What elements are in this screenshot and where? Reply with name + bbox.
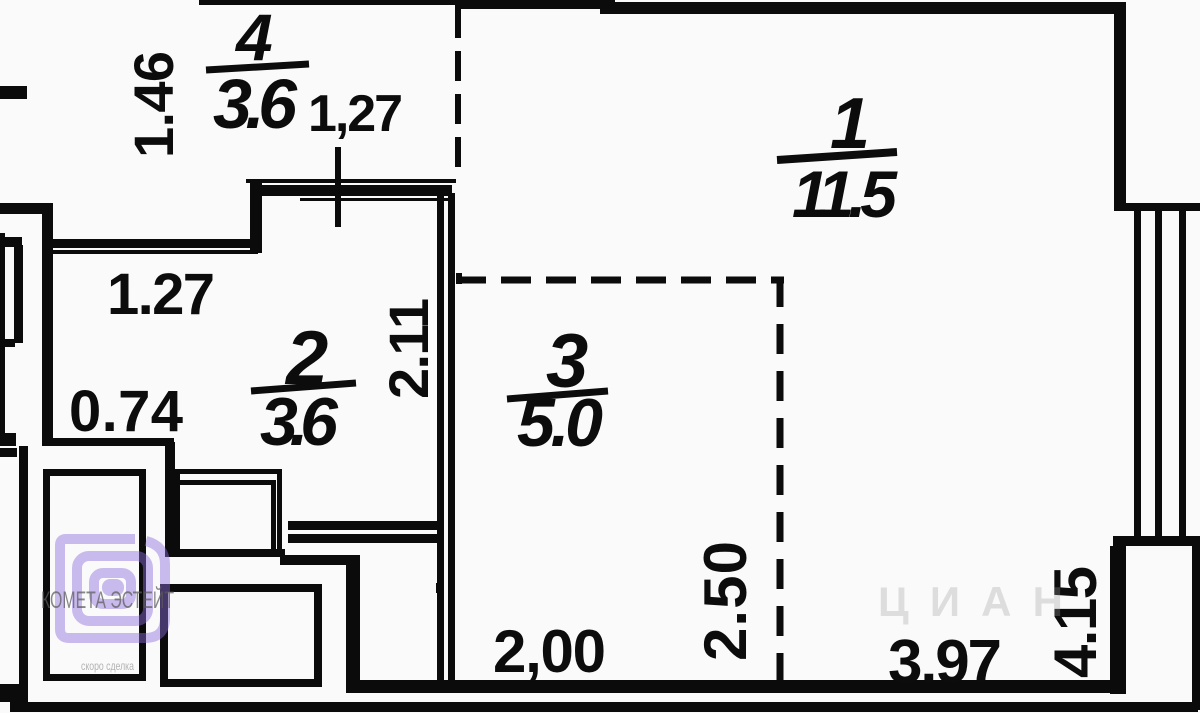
sink inner right line [271,480,276,550]
tick 1.27 dimension [335,147,341,227]
wall room2 south line b [288,534,437,543]
wall bottom-left corner [0,684,28,702]
closet wall top [0,237,22,247]
svg-text:0.74: 0.74 [69,379,183,444]
svg-text:3.6: 3.6 [260,384,339,460]
svg-text:4: 4 [234,0,273,74]
wall step vertical [250,183,262,253]
wall 0.74 horizontal [42,438,174,446]
svg-text:2,00: 2,00 [493,618,606,685]
tick left b [0,448,17,457]
svg-text:3.97: 3.97 [888,628,1002,697]
wall room2 north [255,185,452,196]
wall room1 east vertical [1114,2,1126,211]
dashed room3 east [777,277,784,688]
dashed room3 north [456,277,784,284]
wall apartment south [346,680,1117,693]
wall left top horizontal [0,203,53,214]
window glazing line 1 [1134,211,1141,536]
svg-text:скоро сделка: скоро сделка [81,659,134,673]
wall left edge line [0,233,5,445]
svg-text:2.50: 2.50 [692,541,759,661]
wall bath east vertical [165,442,175,556]
tick 1.46 at left edge [0,86,27,99]
wall hall east vertical [346,557,360,682]
room 3 underline [507,391,608,399]
wall top thin (room 4 top, cropped) [199,0,459,5]
sink outline [178,472,280,552]
svg-text:5.0: 5.0 [517,385,603,461]
wall top mid [455,0,615,9]
bathtub rectangle [47,473,143,678]
kitchen counter rectangle [164,588,318,683]
svg-text:11.5: 11.5 [792,157,898,231]
watermark logo ring 2 [77,556,148,621]
dashed room3 corner stub [456,273,462,284]
closet wall vertical [14,245,23,343]
watermark logo center [102,579,124,596]
wall room2 south line a [288,521,441,530]
svg-text:1.46: 1.46 [122,51,185,158]
balcony top line [1113,536,1200,546]
building bottom border line [10,702,1198,712]
wall room2 north thin line below [300,198,448,201]
svg-text:3.6: 3.6 [213,65,298,143]
wall room2 east line b [448,193,455,682]
window sill top right [1120,203,1200,211]
watermark logo spiral outer ring [60,539,165,638]
room 1 underline [777,152,897,160]
svg-text:1,27: 1,27 [308,85,403,143]
wall 1.27 thick [52,239,258,248]
balcony west thick wall [1110,546,1126,694]
window glazing line 3 [1179,211,1186,536]
wall left lower vertical [19,446,28,698]
wall bath south horizontal [165,549,285,557]
window glazing line 2 [1155,211,1162,536]
dashed partition room4 east [455,8,461,180]
sink inner top line [180,480,272,485]
balcony east line [1192,546,1200,710]
svg-text:2.11: 2.11 [377,298,440,399]
room 2 underline [251,383,356,391]
svg-text:КОМЕТА ЭСТЕЙТ: КОМЕТА ЭСТЕЙТ [41,586,174,614]
svg-text:1.27: 1.27 [107,262,215,327]
tick left a [0,433,16,446]
wall room2 east line a [437,193,444,682]
closet wall bottom thin [0,339,15,347]
room 4 underline [206,64,309,70]
wall 1.27 thin line [52,250,258,254]
door jamb blob [436,583,443,593]
wall hall south thick [280,555,360,565]
wall left main vertical [42,203,53,446]
wall top thick (room 1 north) [600,2,1122,14]
wall room2 north thin line above [246,179,456,183]
watermark logo ring 3 [94,573,131,604]
